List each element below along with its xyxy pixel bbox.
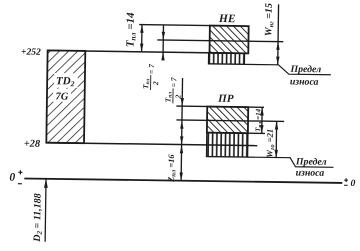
dimension Wgo=21 (PR): [274, 121, 278, 158]
svg-text:износа: износа: [290, 76, 319, 87]
svg-text:D2 = 11,188: D2 = 11,188: [32, 193, 44, 243]
label Tpl/2=7 fraction (first): [141, 64, 160, 90]
dimension Wng=15 (HE): [276, 4, 280, 65]
svg-text:Предел: Предел: [289, 64, 321, 75]
label Tpl=14 (HE, rotated): [124, 12, 137, 47]
label Predel iznosa (PR): [295, 156, 327, 179]
label Zpl=16 (rotated): [167, 154, 178, 183]
svg-text:НЕ: НЕ: [218, 13, 236, 25]
wire +252 line: [48, 51, 249, 54]
wire PR wear limit line: [247, 157, 333, 167]
svg-text:0: 0: [350, 179, 355, 189]
label Predel iznosa (HE): [289, 64, 321, 88]
wire HE wear limit line: [244, 64, 331, 74]
svg-text:0: 0: [9, 172, 15, 184]
dimension Tpl=14 (HE): [140, 25, 144, 52]
gauge PR wear strip: [207, 133, 248, 157]
wire PR lower divider: [207, 132, 265, 135]
dimension D2 arrow: [43, 179, 48, 242]
label Wng=15 (rotated): [263, 3, 275, 36]
dimension Tpl/2=7 (second, PR): [180, 78, 184, 129]
label TD2 7G: [53, 73, 78, 103]
svg-text:Wнг =15: Wнг =15: [263, 3, 275, 36]
label Tpl/2=7 fraction (second): [163, 77, 182, 103]
svg-text:= 7: = 7: [169, 77, 178, 87]
svg-text:7G: 7G: [55, 91, 68, 102]
TD2 tolerance zone rectangle: [46, 50, 85, 143]
svg-text:= 7: = 7: [147, 64, 156, 74]
label Wgo=21 (rotated): [264, 129, 276, 158]
dimension Tpl/2=7 (first, HE): [161, 25, 165, 60]
wire PR middle line: [176, 120, 284, 122]
dimension Zpl=16 chain: [179, 128, 183, 181]
gauge HE wear strip: [209, 53, 245, 65]
wire HE top line extension: [139, 24, 210, 27]
node zero-left: [9, 170, 22, 184]
wire zero line: [24, 178, 342, 182]
dimension Tpl=14 (PR): [260, 107, 264, 133]
svg-text:Tпл =14: Tпл =14: [124, 12, 137, 47]
label D2=11,188 (rotated): [32, 193, 44, 243]
svg-text:ПР: ПР: [217, 93, 234, 105]
node zero-right: [344, 178, 356, 189]
svg-text:+252: +252: [21, 48, 41, 58]
label Tpl=14 (PR, rotated): [254, 108, 264, 132]
gauge HE body (tolerance zone): [209, 26, 248, 54]
svg-text:2: 2: [173, 94, 182, 99]
wire +28 line: [46, 143, 257, 146]
wire PR top line: [176, 106, 264, 107]
svg-text:2: 2: [151, 81, 160, 86]
svg-text:износа: износа: [296, 167, 325, 178]
gauge PR body (tolerance zone): [207, 107, 248, 134]
svg-text:+28: +28: [24, 139, 41, 150]
wire HE middle line: [157, 40, 283, 42]
svg-text:Предел: Предел: [295, 156, 327, 167]
